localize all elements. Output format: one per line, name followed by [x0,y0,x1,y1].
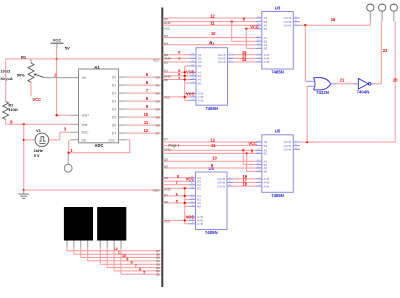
wire U4 B0 from vertical [185,82,190,84]
svg-text:5: 5 [143,271,145,275]
wire ADC D3 to bus net 8 [119,100,127,102]
svg-text:OA>B: OA>B [218,60,226,64]
wire to V1 left terminal [24,139,35,141]
wire V1 left branch down [23,124,25,190]
svg-text:VCC: VCC [33,97,42,102]
wire bus to U4 B3 [163,57,190,59]
wire U6 output 3 to U5 cascade net 18 [234,185,256,187]
svg-text:ADC: ADC [94,143,103,148]
svg-text:Q3: Q3 [164,34,168,38]
svg-text:D7: D7 [112,131,116,135]
wire display pin 1 to bus net 12 [66,241,68,248]
svg-text:D2: D2 [156,91,160,95]
svg-text:11: 11 [210,20,215,25]
wire bus to U4 B1 [163,75,190,77]
wire VCC vertical drop to Vref+ [56,47,58,115]
svg-text:D0: D0 [156,75,160,79]
svg-text:Vin: Vin [82,76,87,80]
wire display pin 5 to bus net 8 [99,241,101,248]
wire V1 right to SOC [49,139,60,141]
svg-text:12: 12 [144,128,149,133]
svg-text:VCC: VCC [164,219,171,223]
wire U6 output 1 to U5 cascade net 19 [234,178,256,180]
svg-text:12: 12 [210,13,215,18]
svg-text:A>B: A>B [264,184,270,188]
svg-text:18: 18 [243,181,248,186]
power VCC 5V symbol [51,37,70,50]
wire ADC D5 to bus net 10 [119,116,127,118]
svg-text:Q0: Q0 [156,273,160,277]
wire vertical x184.7 [184,66,186,100]
wire net 12 bus to U3 A3 [163,17,256,19]
svg-text:Q7: Q7 [164,137,168,141]
wire net 21 or-gate to inverter [336,83,354,85]
wire display pin 4 to bus net 9 [87,241,89,248]
wire net 11 bus to U5 B3 [163,145,256,147]
wire U4 output 1 to U3 cascade net 15 [234,54,255,56]
svg-text:B0: B0 [197,205,201,209]
wire bus to U4 A3 [163,54,190,56]
svg-text:9: 9 [126,257,128,261]
svg-text:B3: B3 [264,144,268,148]
svg-text:OA>B: OA>B [284,23,292,27]
inverter U2 7404N [354,79,375,95]
wire U6 B0 from vertical [185,205,189,207]
svg-text:U3: U3 [275,5,281,10]
svg-text:11: 11 [211,143,216,148]
svg-text:6: 6 [139,267,141,271]
svg-text:A1: A1 [94,65,100,70]
svg-text:D6: D6 [112,123,116,127]
svg-text:SOC: SOC [82,131,90,135]
wire GND rail to bus [24,189,161,191]
wire display pin 2 to bus net 11 [73,241,75,248]
wire ADC D4 to bus net 9 [119,108,127,110]
resistor R2 110ohm [3,102,18,120]
svg-text:B2: B2 [197,187,201,191]
wire EOC to OE feedback loop [126,139,130,141]
svg-text:B0: B0 [264,170,268,174]
comparator U3 7485N [255,5,300,74]
svg-text:A>B: A>B [264,60,270,64]
wire U3 B2 short with branch [246,28,255,30]
wire net11 branch to U3 B1 [231,22,233,42]
wire ADC D1 to bus net 6 [119,84,127,86]
wire net 12 bus to U5 A3 [163,141,256,143]
svg-text:12: 12 [211,137,216,142]
svg-text:Q1: Q1 [164,60,168,64]
node VCC junction on top rail [55,58,57,60]
wire display pin 8 to bus net 5 [120,241,122,248]
svg-text:5 V: 5 V [34,153,40,158]
node junction key terminal [68,152,70,154]
display U7 seven-segment [64,207,93,241]
comparator U4 7485N [190,42,235,111]
svg-text:22: 22 [383,48,388,53]
svg-text:D0: D0 [112,75,116,79]
wire ADC SOC stub [71,131,79,133]
source V1 1kHz 5V [34,128,49,158]
wire ADC OE stub [70,139,78,141]
svg-text:Q0: Q0 [164,78,168,82]
wire bus to U6 A1 [163,195,190,197]
svg-text:Q3: Q3 [164,176,168,180]
node junction net16 to or-gate [304,24,306,26]
node junction at V1 left [23,139,25,141]
svg-text:U5: U5 [275,129,281,134]
svg-text:Vref+: Vref+ [82,114,90,118]
svg-text:VCC: VCC [164,27,171,31]
wire net 11 bus to U3 B3 [163,21,256,23]
wire net 9 bus to U3 A0 [163,44,256,46]
svg-text:21: 21 [340,77,345,82]
wire net 9 bus to U5 A0 [163,167,256,169]
svg-text:B2: B2 [264,27,268,31]
wire branch to U3 B0 [245,29,247,49]
svg-text:7485N: 7485N [205,106,218,111]
wire bus to U4 A0 [163,79,190,81]
node junction net20 to or-gate input2 [306,141,308,143]
wire branch to U5 B1 [242,150,244,164]
svg-text:5V: 5V [65,45,70,50]
svg-text:B0: B0 [264,47,268,51]
wire bus to U6 B2 GND [163,187,190,189]
svg-text:D4: D4 [112,107,116,111]
svg-text:D2: D2 [112,91,116,95]
wire top rail y59 R1 to bus [6,58,161,60]
svg-text:7: 7 [135,264,137,268]
svg-text:16: 16 [331,17,336,22]
svg-text:GND: GND [164,21,172,25]
wire bus to U6 A2 [163,184,190,186]
wire U4 B2 from vertical [185,65,190,67]
node junction net11 branch [231,20,233,22]
svg-text:Q1: Q1 [164,69,168,73]
wire bus VCC to U6 A=B [163,219,190,221]
wire left branch x5.7 [5,59,7,102]
wire bus to U6 A3 [163,177,190,179]
resistor R1 potentiometer 10k [1,54,45,96]
wire ADC D0 to bus net 5 [119,76,127,78]
wire U6 A>B from vertical [185,223,189,225]
wire display pin 7 to bus net 6 [113,241,115,248]
wire net 16 U3 output to probe X1 [300,24,370,26]
svg-text:VCC: VCC [164,95,171,99]
probe terminal X1 [367,4,374,21]
svg-text:D1: D1 [156,83,160,87]
svg-text:14: 14 [242,57,247,62]
svg-text:OA>B: OA>B [217,184,225,188]
svg-text:20: 20 [393,77,398,82]
wire R1 wiper to ADC Vin [44,77,71,79]
svg-text:EOC: EOC [109,138,117,142]
wire branch to U5 B0 [246,153,248,171]
svg-text:7432N: 7432N [316,90,329,95]
svg-text:D3: D3 [112,99,116,103]
svg-text:7485N: 7485N [271,193,284,198]
bus B1 vertical [161,8,163,288]
svg-text:D7: D7 [156,131,160,135]
svg-text:GND: GND [164,148,172,152]
wire bus to U6 A0 [163,202,190,204]
svg-text:VCC: VCC [186,214,195,219]
ground symbol [18,190,29,198]
wire bus VCC to U4 A=B [163,96,190,98]
node junction on A2 wire [242,149,244,151]
wire net 20 U5 output to probe X3 [300,141,395,143]
wire U6 A<B cascade [185,216,189,218]
display U8 seven-segment [97,207,126,241]
wire ADC D6 to bus net 11 [119,124,127,126]
wire U5 B2 short with branch [163,152,256,154]
svg-text:A>B: A>B [197,222,203,226]
wire bus to U4 A2 [163,61,190,63]
svg-text:7485N: 7485N [271,70,284,75]
svg-text:R1: R1 [21,54,27,59]
svg-text:10: 10 [212,155,217,160]
wire ADC D7 to bus net 12 [119,132,127,134]
svg-text:Q4: Q4 [164,42,168,46]
svg-text:Key=A: Key=A [1,76,13,81]
wire ADC Vref+ stub [71,114,79,116]
svg-text:OE: OE [82,138,87,142]
or-gate U1 7432N [306,78,336,96]
svg-text:110Ω: 110Ω [8,107,17,112]
svg-text:V1: V1 [36,128,42,133]
svg-text:7485N: 7485N [205,230,218,235]
svg-text:D1: D1 [112,83,116,87]
wire display pin 6 to bus net 7 [106,241,108,248]
svg-text:B2: B2 [264,152,268,156]
wire net 22 inverter output to probe X2 [375,83,382,85]
wire bus to U6 B3 [163,180,190,182]
wire U6 B1 from vertical [185,198,189,200]
wire R2 bottom to Vref- [5,120,7,125]
svg-text:B0: B0 [198,81,202,85]
wire VCC entry to U3 A2 [163,24,256,26]
wire ADC Vref- stub [71,123,79,125]
svg-text:VCC: VCC [53,37,62,42]
svg-text:Q0: Q0 [164,200,168,204]
op-amp A1 ADC block [79,65,119,148]
svg-text:10: 10 [211,31,216,36]
svg-text:VCC: VCC [186,91,195,96]
key terminal circle [67,153,69,165]
svg-text:VCC: VCC [153,58,160,62]
wire bus to U4 A1 [163,71,190,73]
wire U6 output 2 to U5 cascade net 17 [234,182,256,184]
wire net 10 bus to U3 A1 [163,37,256,39]
node junction x23.75 on Vref- wire [23,123,25,125]
svg-text:D5: D5 [112,115,116,119]
wire ADC Vin stub [71,77,79,79]
comparator U5 7485N [255,129,300,198]
wire vertical x184.7 U6 [184,188,186,224]
svg-text:GND: GND [153,189,161,193]
probe terminal X3 [390,4,397,21]
svg-text:OA>B: OA>B [284,147,292,151]
node junction at ground [23,189,25,191]
svg-text:Q1: Q1 [164,193,168,197]
comparator U6 7485N [189,166,234,235]
wire ADC EOC stub [119,139,126,141]
wire net 10 bus to U5 A1 [163,160,256,162]
wire net20 up to or-gate input2 [306,86,308,142]
svg-text:50%: 50% [17,72,25,77]
svg-text:Q5: Q5 [164,158,168,162]
svg-text:Q4: Q4 [164,164,168,168]
wire U4 A<B cascade [185,93,190,95]
svg-text:D5: D5 [156,115,160,119]
svg-text:A>B: A>B [198,99,204,103]
wire display pin 3 to bus net 10 [80,241,82,248]
wire net16 down to or-gate input1 [304,25,306,81]
probe terminal X2 [379,4,386,21]
svg-text:8: 8 [131,261,133,265]
svg-text:B2: B2 [198,64,202,68]
svg-text:10: 10 [144,112,149,117]
svg-text:11: 11 [144,120,149,125]
svg-text:D6: D6 [156,123,160,127]
wire GND entry to U5 A2 [163,149,256,151]
svg-text:D4: D4 [156,107,160,111]
wire U4 output 3 to U3 cascade net 14 [234,61,255,63]
svg-text:GND: GND [164,187,172,191]
wire U4 output 2 to U3 cascade net 13 [234,57,255,59]
wire U4 A>B from vertical [185,99,190,101]
svg-text:Vref-: Vref- [82,123,89,127]
wire ADC D2 to bus net 7 [119,92,127,94]
svg-text:7404N: 7404N [357,90,370,95]
svg-text:D3: D3 [156,99,160,103]
